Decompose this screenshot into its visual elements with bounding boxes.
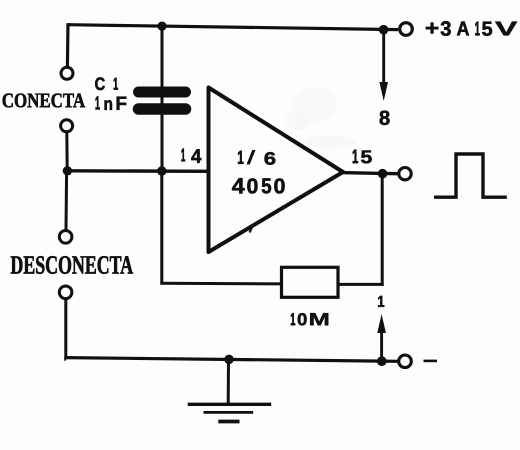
pin 8 supply arrow: [379, 30, 388, 101]
wire: bottom rail: [64, 358, 398, 362]
wire: feedback horizontal to resistor: [160, 282, 281, 286]
node: supply junction: [379, 25, 389, 35]
pin 14 label: [181, 149, 201, 163]
wire: feedback vertical from input node down: [160, 171, 163, 283]
pin 1 arrow pointing up to gate: [377, 314, 386, 361]
label 1nF: [96, 96, 127, 109]
scan smudge upper middle: [286, 87, 356, 149]
pin 8 label: [380, 111, 390, 125]
wire: ground stem: [227, 359, 230, 403]
label 1/6: [238, 150, 275, 164]
label C1: [95, 77, 118, 90]
terminal: negative supply circle: [399, 355, 412, 368]
wire: output vertical down to resistor lead: [381, 174, 384, 286]
label DESCONECTA: [11, 256, 133, 274]
label CONECTA: [3, 94, 85, 108]
terminal: +V circle: [400, 23, 413, 36]
node: junction of C1 branch on top rail: [157, 22, 166, 31]
terminal: CONECTA lower contact: [61, 120, 73, 132]
square wave output icon: [434, 154, 507, 197]
resistor R1 10M body: [282, 267, 339, 297]
wire: DESCONECTA lower contact down to bottom rail: [64, 299, 67, 360]
node: output junction: [378, 169, 388, 179]
node: negative terminal junction: [377, 356, 387, 366]
wire: output from apex to terminal: [341, 173, 398, 174]
wire: resistor right lead: [338, 283, 384, 286]
wire: CONECTA lower contact to input node: [65, 132, 68, 171]
label minus: [424, 360, 438, 363]
pin 1 label: [378, 296, 384, 307]
label 4050: [232, 178, 285, 193]
terminal: output circle: [399, 168, 411, 180]
wire: left column from top rail down to CONECTA top contact: [66, 23, 70, 66]
pin 15 label: [353, 150, 372, 164]
terminal: DESCONECTA upper contact: [59, 231, 72, 244]
wire: DESCONECTA column from input node down to upper contact: [65, 171, 69, 230]
node: input junction at left column: [63, 166, 72, 175]
scan tick inside triangle: [250, 226, 253, 233]
wire: input wire from touch contacts to pin 14: [67, 169, 210, 173]
label 10M: [291, 313, 328, 325]
terminal: DESCONECTA lower contact: [59, 286, 72, 299]
node: input junction at C1 / feedback branch: [157, 166, 166, 175]
capacitor C1 bottom plate: [139, 103, 186, 115]
terminal: CONECTA upper contact: [61, 67, 73, 79]
wire: top supply rail: [68, 25, 398, 30]
capacitor C1 top plate: [139, 87, 186, 98]
wire: C1 vertical branch: [161, 26, 164, 171]
label +3 A 15V: [426, 21, 517, 36]
op-amp U1: 1/6 4050 buffer triangle: [209, 88, 344, 253]
node: ground junction: [224, 355, 234, 365]
ground symbol: [188, 404, 272, 421]
